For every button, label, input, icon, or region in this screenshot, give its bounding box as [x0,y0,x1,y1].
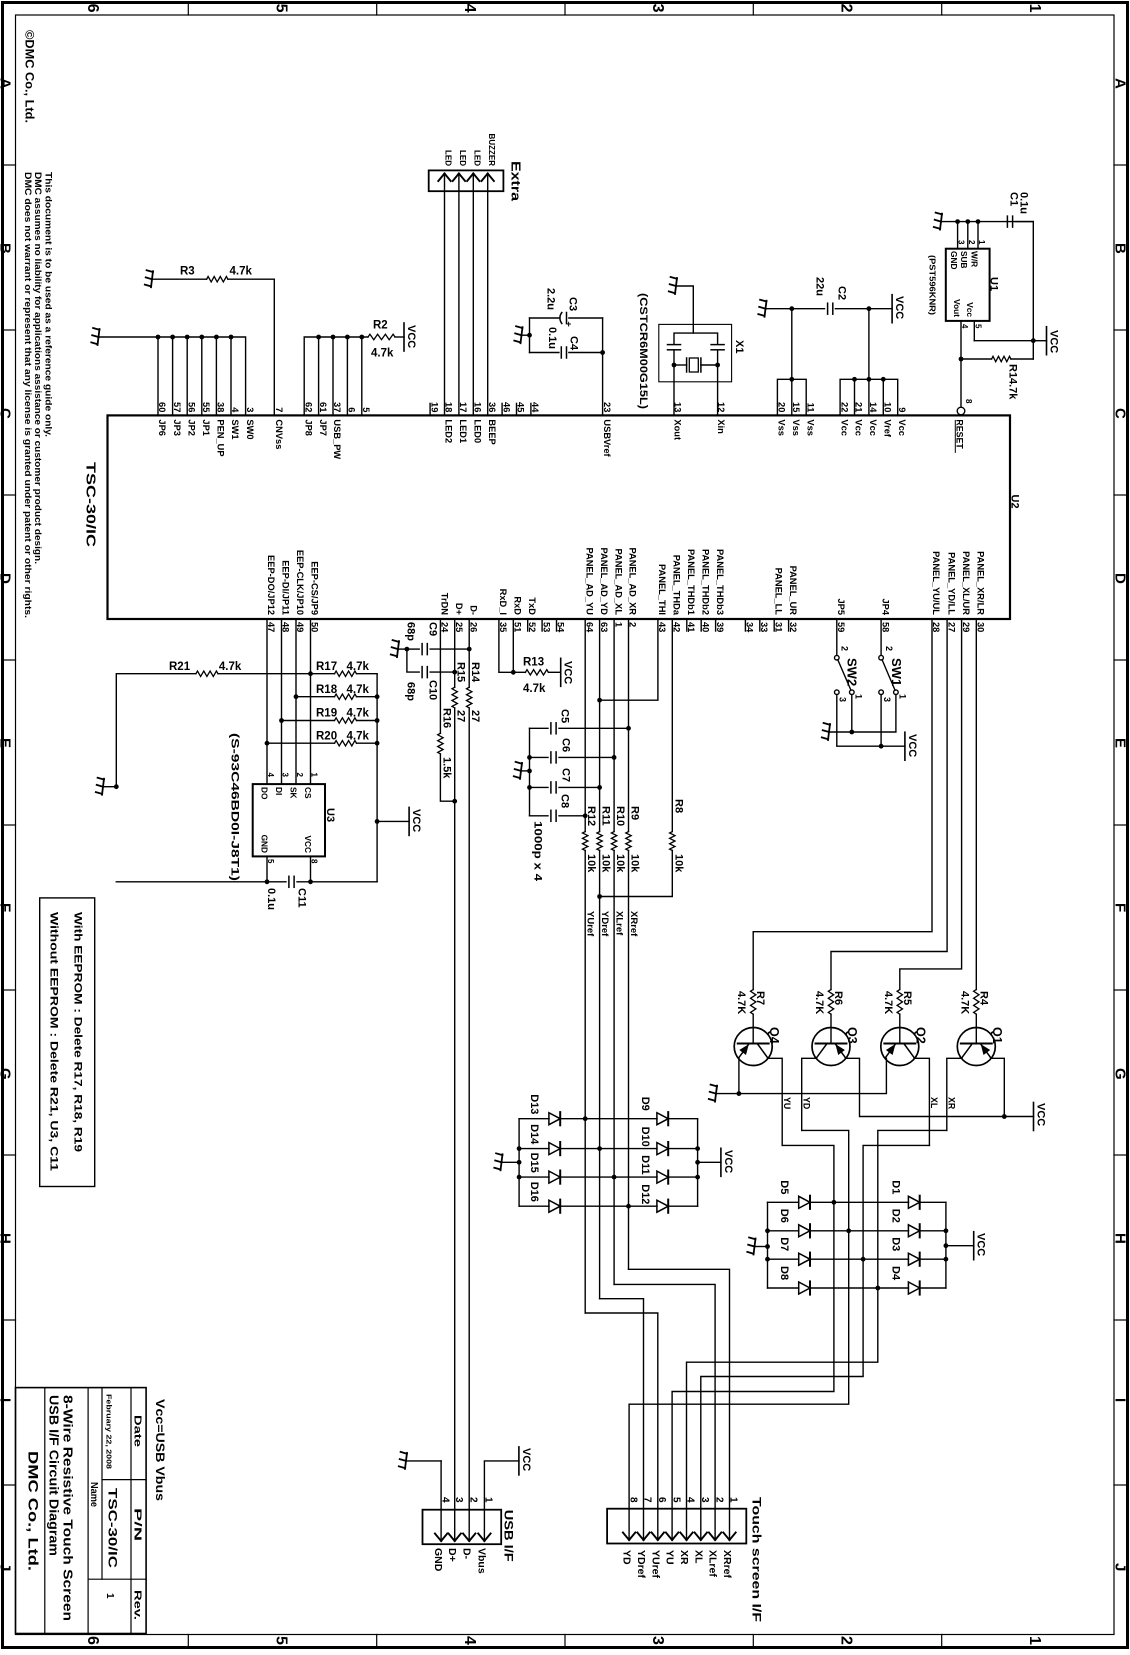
svg-text:JP8: JP8 [303,419,313,436]
label Q1 [990,1027,1004,1044]
svg-text:USB I/F: USB I/F [502,1510,516,1562]
label C11 [296,888,308,908]
label net XLref [614,911,625,936]
pin U3-2 SK [288,773,304,799]
label D2 [890,1209,902,1223]
label D9 [639,1097,651,1111]
svg-text:With EEPROM : Delete R17, R18,: With EEPROM : Delete R17, R18, R19 [72,912,84,1152]
svg-text:TSC-30/IC: TSC-30/IC [106,1488,120,1568]
diode D14 [519,1142,602,1155]
wire pin stub [157,337,159,415]
ground G11 [822,723,830,740]
pin 28 PANEL_YU/UL [931,551,941,632]
label R6 value 4.7K [813,991,825,1014]
wire XLref line [613,851,615,1285]
svg-text:XR: XR [678,1550,690,1565]
IC U2 refdes [1009,495,1021,509]
svg-text:PANEL_THDa: PANEL_THDa [672,555,682,616]
svg-text:68p: 68p [405,682,417,701]
wire YDref to pin 7 [600,1299,644,1509]
label R10 value 10k [614,854,626,873]
ground G1 [91,328,99,345]
svg-text:F: F [0,903,14,912]
svg-text:E: E [1111,738,1128,748]
label Q3 [845,1027,859,1044]
svg-text:2: 2 [884,646,894,651]
label R3 value 4.7k [230,266,253,278]
svg-text:GND: GND [259,835,269,853]
svg-text:10k: 10k [672,854,684,873]
svg-text:X1: X1 [733,340,745,353]
label R7 value 4.7K [735,991,747,1014]
svg-text:1: 1 [104,1593,115,1599]
pin U1-1 W/R [969,219,986,267]
svg-text:R20: R20 [316,730,337,742]
svg-text:B: B [1111,243,1128,254]
diode D2 [849,1224,946,1237]
svg-text:YUref: YUref [649,1550,661,1579]
label D11 [639,1155,651,1175]
svg-text:SW0: SW0 [245,419,255,439]
pin 20 Vss [777,402,787,436]
pin SW1-3 [882,697,892,702]
diode D6 [768,1224,852,1237]
wire C10 net [407,649,457,674]
svg-text:R4: R4 [977,991,989,1006]
svg-text:Vcc: Vcc [965,302,975,317]
capacitor C11 [289,876,294,887]
label D3 [890,1237,902,1251]
svg-text:10k: 10k [585,854,597,873]
svg-text:+: + [566,319,571,329]
pin 29 PANEL_XL/UR [961,551,971,632]
svg-text:D8: D8 [778,1266,790,1280]
svg-text:PANEL_YU/UL: PANEL_YU/UL [931,551,941,615]
diode D15 [519,1171,616,1184]
label C11 value 0.1u [265,888,277,910]
svg-text:44: 44 [530,402,540,413]
svg-text:YDref: YDref [635,1550,647,1579]
svg-text:R21: R21 [169,661,191,673]
label R19 value 4.7k [347,708,370,720]
pin 3 SW0 [245,407,255,439]
svg-text:BEEP: BEEP [487,419,497,444]
svg-text:D7: D7 [778,1237,790,1251]
label R9 [629,806,641,820]
svg-text:PANEL_THDb1: PANEL_THDb1 [686,549,696,615]
svg-text:DMC Co., Ltd.: DMC Co., Ltd. [26,1451,41,1571]
wire Vout to RESET pin 8 [960,359,962,407]
wire Vss pins bus [777,309,806,416]
svg-text:R12: R12 [585,806,597,826]
wire pullup rail to VCC [375,674,409,882]
label R5 value 4.7K [882,991,894,1014]
svg-text:D5: D5 [778,1180,790,1194]
wire D+ line upper [454,619,456,687]
resistor R16 [438,733,443,754]
svg-text:RxD: RxD [513,596,523,615]
label D15 [528,1153,540,1173]
power VCC5 [561,658,574,686]
svg-text:8-Wire Resistive Touch Screen: 8-Wire Resistive Touch Screen [61,1395,76,1621]
svg-text:Vss: Vss [805,419,815,436]
wire D1 block right rail [944,1202,974,1288]
pin 44 [530,402,540,415]
wire PANEL_AD_XR line [628,619,630,832]
connector Extra [429,170,504,191]
wire YU to pin 5 [672,1202,834,1508]
svg-text:PANEL_LL: PANEL_LL [773,568,783,616]
pin 55 JP1 [201,402,211,436]
svg-text:33: 33 [759,622,769,632]
junction [156,335,161,340]
svg-text:R6: R6 [832,991,844,1005]
svg-text:LED: LED [473,150,482,166]
title block [16,1388,147,1634]
svg-text:VCC: VCC [410,809,422,832]
pin U3-8 VCC [303,835,319,881]
label R13 value 4.7k [523,683,546,695]
label R4 value 4.7K [958,991,970,1014]
svg-text:Date: Date [132,1415,143,1448]
wire D+ line lower [454,708,456,1510]
pin 64 PANEL_AD_YU [584,547,594,633]
capacitor C5 [551,723,556,734]
wire C3 rail [530,317,603,319]
wire Q4 emitter to gnd rail [737,1058,742,1096]
label D13 [528,1094,540,1114]
ground G6 [934,213,942,230]
svg-text:PANEL_XR/LR: PANEL_XR/LR [976,551,986,615]
resistor R6 [828,990,833,1015]
note line 3 [23,172,33,618]
wire D5 block left rail [765,1202,770,1288]
svg-text:VCC: VCC [405,325,417,348]
pin 39 PANEL_THDb3 [715,549,725,632]
svg-text:D11: D11 [639,1155,651,1175]
svg-text:XL: XL [929,1097,939,1109]
svg-text:SW1: SW1 [889,658,904,686]
ground G13 [494,1153,519,1170]
pin 59 JP5 [836,598,846,632]
svg-text:Xout: Xout [673,419,683,440]
wire EEP-CS line [310,619,312,784]
svg-text:YD: YD [802,1097,812,1109]
transistor Q4 [734,1014,772,1065]
switch SW1 [879,655,898,694]
wire BUZZER line [487,191,489,415]
pin SW1-2 [884,646,894,651]
resistor R12 [583,832,588,851]
svg-text:YU: YU [782,1097,792,1109]
svg-text:D2: D2 [890,1209,902,1223]
wire R3 to CNVss pin 7 [152,279,274,415]
wire XR to pin 4 [687,1288,878,1509]
wire YUref to pin 6 [585,1313,658,1509]
title block Date header [132,1415,143,1448]
label R11 [600,806,612,826]
svg-text:D14: D14 [528,1124,540,1145]
svg-text:34: 34 [745,622,755,633]
diode D4 [878,1281,946,1294]
label R2 value 4.7k [371,348,394,360]
note Vcc=USB Vbus [153,1399,167,1501]
resistor R11 [597,832,602,851]
svg-text:C: C [0,408,14,419]
label R20 [316,730,337,742]
diode D9 [585,1112,697,1125]
svg-text:4.7k: 4.7k [347,708,370,720]
resistor R17 [308,671,377,676]
svg-text:SW2: SW2 [845,658,860,686]
svg-text:VCC: VCC [906,734,918,757]
pin 1 PANEL_AD_XL [613,549,623,628]
wire X1 top rail [674,333,718,344]
pin 19 [429,402,439,415]
wire RxD stub [511,619,516,675]
junction [867,377,872,382]
IC U1 body [946,249,990,321]
label X1 part CSTCR6M00G15L [637,293,649,409]
svg-text:R15: R15 [455,662,467,682]
svg-text:1: 1 [1026,4,1043,13]
svg-text:RxD_I: RxD_I [498,589,508,615]
pin 6 [347,407,357,412]
wire EEP-CLK line [295,619,297,784]
pin 10 Vref [883,402,893,438]
junction [789,306,794,311]
wire PANEL_THI jog [597,619,658,703]
pin 21 Vcc [854,402,864,436]
resistor R10 [611,832,616,851]
label U3 part S-93C46BD0I-J8T1 [229,733,241,881]
svg-text:3: 3 [649,4,666,13]
svg-text:3: 3 [838,697,848,702]
svg-text:40: 40 [700,622,710,632]
svg-text:C9: C9 [427,622,439,636]
pin 43 PANEL_THI [657,564,667,632]
ground G10 [514,762,530,779]
power VCC3 [1047,327,1060,355]
label C10 [427,680,439,700]
diode D12 [629,1200,698,1213]
label C9 value 68p [405,622,417,641]
pin U3-3 DI [274,773,290,796]
copyright text [23,30,37,123]
label LED [444,150,453,166]
wire Q4 collector YU [768,1058,783,1145]
svg-text:10k: 10k [629,854,641,873]
svg-text:41: 41 [686,622,696,632]
wire Vbus to VCC [484,1461,519,1510]
wire C4 rail [530,318,603,353]
wire gnd bus JP6..SW0 [99,337,246,415]
svg-text:Name: Name [88,1482,99,1507]
svg-text:Q4: Q4 [767,1027,781,1044]
pin SW2-2 [840,646,850,651]
svg-text:U3: U3 [324,808,336,822]
svg-text:USB I/F Circuit Diagram: USB I/F Circuit Diagram [47,1395,62,1556]
svg-text:4: 4 [266,773,275,778]
svg-text:Vcc: Vcc [868,419,878,436]
svg-text:(S-93C46BD0I-J8T1): (S-93C46BD0I-J8T1) [229,733,241,881]
svg-text:4.7k: 4.7k [523,683,546,695]
title block P/N header [132,1508,143,1541]
svg-text:PANEL_AD_XL: PANEL_AD_XL [613,549,623,616]
svg-text:R5: R5 [901,991,913,1005]
wire LED line [444,191,446,415]
pin 52 TxD [527,597,537,632]
wire D- line upper [468,619,470,687]
note without EEPROM [48,912,60,1171]
svg-text:R19: R19 [316,708,337,720]
wire PANEL_AD_YU line [584,619,586,832]
svg-text:4: 4 [461,4,478,13]
svg-text:C: C [1111,408,1128,419]
label net YDref [599,911,610,937]
svg-text:DMC assumes no liability for a: DMC assumes no liability for application… [33,172,43,564]
pin U3-4 DO [259,773,275,800]
svg-text:EEP-CLK/JP10: EEP-CLK/JP10 [295,550,305,615]
svg-text:19: 19 [429,402,439,412]
label RESET [954,419,964,452]
pin Touch-2 XLref [707,1497,725,1577]
svg-text:0.1u: 0.1u [1018,192,1030,214]
svg-text:D9: D9 [639,1097,651,1111]
pin 61 JP7 [318,402,328,436]
pin 56 JP2 [186,402,196,436]
capacitor C3 [560,313,567,324]
resistor R8 [670,832,675,851]
svg-text:(PST596KNR): (PST596KNR) [928,255,938,315]
wire LED line [472,191,474,415]
wire U1 Vcc to VCC [974,338,1046,343]
label D16 [528,1182,540,1202]
label R18 [316,684,338,696]
wire PANEL_AD_XL line [613,619,615,832]
svg-text:EEP-DO/JP12: EEP-DO/JP12 [266,555,276,615]
svg-text:5: 5 [973,324,982,329]
svg-text:JP3: JP3 [172,419,182,436]
svg-text:3: 3 [453,1497,464,1503]
wire pin stub [882,379,884,415]
label net XRref [628,911,639,937]
label R17 [316,661,337,673]
label D4 [890,1266,902,1281]
pin 63 PANEL_AD_YD [599,547,609,632]
arrow [482,174,494,192]
svg-text:10k: 10k [614,854,626,873]
pin 50 EEP-CS/JP9 [310,561,320,632]
svg-text:YDref: YDref [599,911,610,937]
wire X1 bottom rail [674,350,718,365]
wire EEP-DI line [281,619,283,784]
label R5 [901,991,913,1005]
wire XRref to pin 1 [629,1269,730,1508]
transistor Q1 [957,1014,995,1065]
pin Touch-6 YUref [649,1497,667,1579]
junction [881,377,886,382]
resistor R14 [467,687,472,708]
capacitor C10 [422,667,427,678]
capacitor X1 right [711,345,724,350]
label C3 plus [566,319,571,329]
wire XL to pin 3 [701,1259,863,1509]
wire pin stub [868,379,870,415]
svg-text:D4: D4 [890,1266,902,1281]
svg-text:1: 1 [1026,1636,1043,1645]
svg-text:(CSTCR6M00G15L): (CSTCR6M00G15L) [637,293,649,409]
ground G9 [399,1452,407,1469]
wire LED line [458,191,460,415]
arrow [438,174,450,192]
label R3 [180,266,195,278]
pin 14 Vcc [868,402,878,436]
resistor R2 [368,334,395,339]
wire JP4 stub [880,619,882,655]
svg-text:Extra: Extra [509,161,523,202]
power VCC8 [1034,1103,1047,1131]
svg-text:45: 45 [516,402,526,412]
svg-text:C6: C6 [560,738,572,752]
wire C2 to VCC [835,308,892,310]
connector USB I/F [423,1510,502,1545]
junction [331,335,336,340]
svg-text:Vout: Vout [952,299,962,317]
wire Q1 emitter to VCC rail [991,1058,1007,1119]
svg-text:R2: R2 [373,320,388,332]
svg-text:Q1: Q1 [990,1027,1004,1044]
diode D5 [768,1196,837,1209]
svg-text:J: J [0,1563,14,1571]
wire PANEL_AD_YD line [599,619,601,832]
svg-text:27: 27 [455,710,467,722]
pin 38 PEN_UP [216,402,226,457]
svg-text:R18: R18 [316,684,338,696]
wire JP5 stub [836,619,838,655]
svg-text:D1: D1 [890,1180,902,1194]
ground G7 [96,778,119,795]
transistor Q3 [812,1014,850,1065]
wire EEP-DO line [266,619,268,784]
svg-text:4.7K: 4.7K [882,991,894,1014]
svg-text:B: B [0,243,14,254]
svg-text:Vss: Vss [777,419,787,436]
wire XLref to pin 2 [614,1284,715,1508]
wire RxD_I to RxD [499,619,513,672]
pin 30 PANEL_XR/LR [976,551,986,632]
wire YD to pin 8 [629,1231,849,1509]
title block part number [106,1488,120,1568]
pin 41 PANEL_THDb1 [686,549,696,632]
label C2 [836,286,848,300]
svg-text:D13: D13 [528,1094,540,1114]
svg-text:D10: D10 [639,1127,651,1147]
power VCC1 [404,323,417,351]
junction [852,377,857,382]
svg-text:LED0: LED0 [473,419,483,443]
svg-text:R7: R7 [754,991,766,1005]
label C1 value 0.1u [1018,192,1030,214]
wire U1 gnd bus [941,221,1033,223]
svg-text:Xin: Xin [716,419,726,434]
svg-text:5: 5 [273,1636,290,1645]
title block date value [105,1394,112,1469]
svg-text:4.7k: 4.7k [230,266,253,278]
svg-text:5: 5 [670,1497,681,1503]
svg-text:3: 3 [882,697,892,702]
label net XL [929,1097,939,1109]
